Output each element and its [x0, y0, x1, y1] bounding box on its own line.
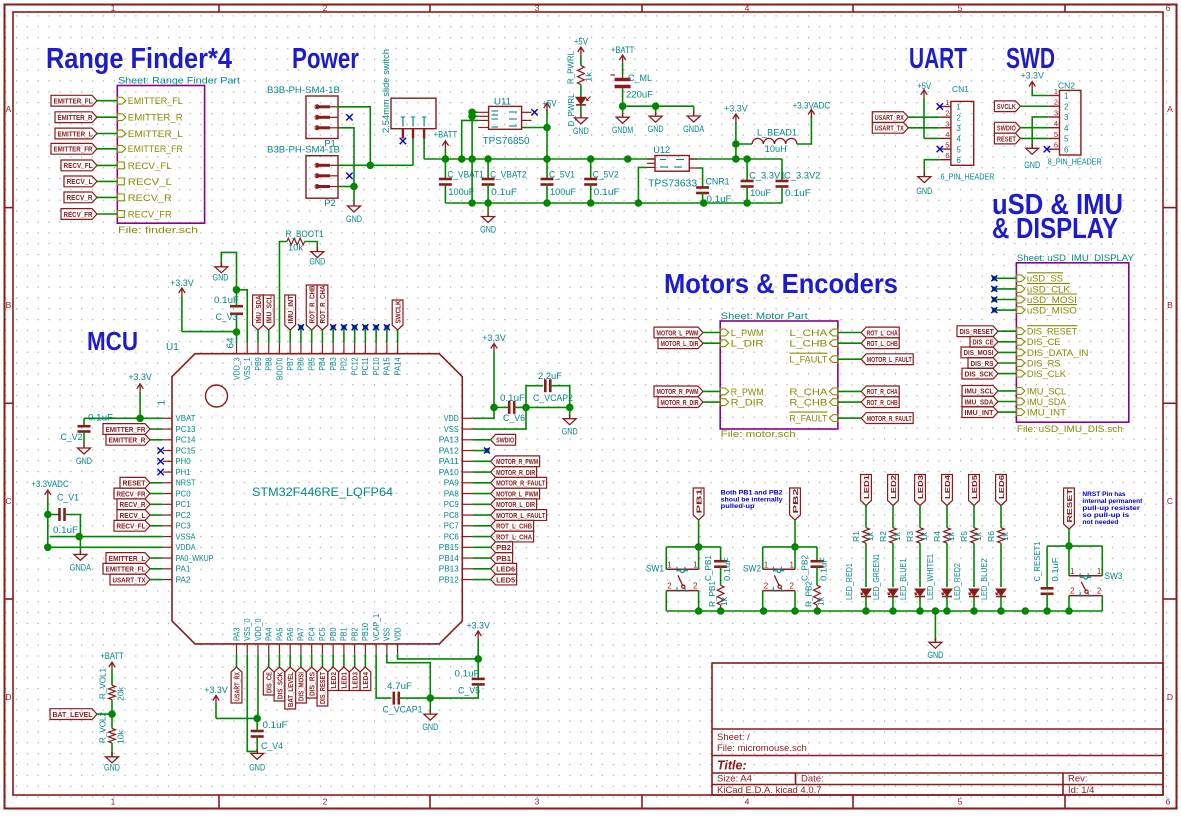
svg-text:1: 1: [111, 3, 116, 13]
svg-text:LED5: LED5: [496, 575, 515, 584]
svg-text:1: 1: [693, 560, 698, 569]
svg-text:VSS_0: VSS_0: [243, 618, 252, 641]
svg-text:Date:: Date:: [801, 774, 824, 785]
svg-text:+3.3VADC: +3.3VADC: [793, 101, 831, 112]
svg-text:0.1uF: 0.1uF: [455, 669, 480, 680]
svg-text:PA2: PA2: [176, 575, 192, 584]
svg-text:6: 6: [1166, 797, 1171, 807]
svg-text:6: 6: [945, 151, 949, 160]
svg-text:DIS_RESET: DIS_RESET: [1027, 327, 1078, 338]
svg-text:RECV_FR: RECV_FR: [64, 210, 93, 219]
svg-text:1k: 1k: [584, 71, 594, 82]
svg-text:R6: R6: [986, 531, 996, 542]
svg-text:4: 4: [745, 797, 750, 807]
svg-text:MOTOR_L_PWM: MOTOR_L_PWM: [657, 328, 699, 337]
svg-text:IMU_SCL: IMU_SCL: [965, 387, 994, 396]
svg-text:VDD: VDD: [444, 414, 459, 423]
svg-text:MOTOR_L_DIR: MOTOR_L_DIR: [661, 339, 699, 348]
svg-text:GND: GND: [309, 257, 325, 268]
svg-text:0.1uF: 0.1uF: [1050, 558, 1060, 582]
svg-text:Title:: Title:: [717, 759, 747, 773]
svg-text:+3.3VADC: +3.3VADC: [31, 479, 69, 490]
svg-text:PB13: PB13: [439, 565, 460, 574]
svg-text:RECV_R: RECV_R: [67, 193, 93, 202]
svg-text:PA15: PA15: [383, 357, 392, 376]
svg-text:1k: 1k: [973, 531, 983, 541]
svg-text:1: 1: [956, 103, 961, 112]
svg-text:+3.3V: +3.3V: [1020, 70, 1044, 81]
svg-text:1: 1: [157, 400, 168, 406]
svg-text:VSS_1: VSS_1: [243, 357, 252, 380]
svg-text:100uF: 100uF: [550, 187, 576, 198]
svg-text:EMITTER_R: EMITTER_R: [109, 436, 146, 445]
svg-text:2: 2: [945, 109, 949, 118]
svg-text:LED2: LED2: [329, 672, 338, 689]
svg-text:PA4: PA4: [265, 627, 274, 641]
svg-text:RECV_FL: RECV_FL: [64, 161, 93, 170]
svg-text:1k: 1k: [865, 531, 875, 541]
svg-text:6: 6: [956, 156, 961, 165]
svg-text:2: 2: [1054, 98, 1058, 107]
svg-text:SW3: SW3: [1105, 571, 1123, 582]
svg-text:5: 5: [958, 797, 963, 807]
svg-text:ROT_R_CHA: ROT_R_CHA: [318, 285, 327, 323]
svg-text:C_V2: C_V2: [61, 432, 83, 443]
svg-text:GND: GND: [916, 186, 932, 197]
svg-text:STM32F446RE_LQFP64: STM32F446RE_LQFP64: [252, 485, 393, 499]
svg-text:PB1: PB1: [340, 627, 349, 641]
svg-text:PB4: PB4: [318, 357, 327, 371]
svg-text:2: 2: [323, 797, 328, 807]
svg-text:DIS_CLK: DIS_CLK: [1027, 369, 1067, 380]
svg-text:TPS76850: TPS76850: [483, 135, 530, 147]
svg-text:10uH: 10uH: [765, 144, 787, 155]
svg-text:2: 2: [1097, 587, 1102, 596]
svg-text:U11: U11: [494, 97, 511, 108]
svg-text:R_FAULT: R_FAULT: [789, 414, 827, 425]
svg-text:1: 1: [945, 98, 949, 107]
svg-text:+3.3V: +3.3V: [724, 103, 748, 114]
svg-text:File: uSD_IMU_DIS.sch: File: uSD_IMU_DIS.sch: [1017, 424, 1123, 435]
svg-text:PA13: PA13: [439, 436, 460, 445]
svg-text:P2: P2: [324, 198, 336, 209]
svg-text:6: 6: [1064, 145, 1069, 154]
svg-text:C_5V2: C_5V2: [593, 170, 619, 181]
svg-text:PD2: PD2: [340, 357, 349, 371]
svg-text:VDD_0: VDD_0: [254, 618, 263, 641]
svg-text:R_PWRL: R_PWRL: [566, 51, 576, 84]
svg-text:PH1: PH1: [176, 468, 192, 477]
svg-text:PA0_WKUP: PA0_WKUP: [176, 554, 214, 563]
svg-text:10k: 10k: [116, 729, 126, 744]
svg-text:DIS_RESET: DIS_RESET: [318, 672, 327, 704]
svg-text:2: 2: [956, 113, 961, 122]
svg-text:GNDM: GNDM: [612, 125, 633, 136]
svg-text:+BATT: +BATT: [100, 651, 124, 662]
svg-text:4.7uF: 4.7uF: [387, 681, 412, 692]
svg-text:C: C: [5, 496, 11, 506]
svg-text:GND: GND: [1024, 160, 1040, 171]
svg-text:0.1uF: 0.1uF: [214, 295, 239, 306]
svg-text:GNDA: GNDA: [70, 562, 92, 573]
svg-text:0.1uF: 0.1uF: [722, 557, 732, 581]
svg-text:C_PB1: C_PB1: [703, 555, 713, 581]
svg-text:DIS_RS: DIS_RS: [1027, 358, 1061, 369]
svg-text:ROT_R_CHB: ROT_R_CHB: [867, 398, 898, 407]
svg-text:GND: GND: [346, 214, 362, 225]
svg-text:DIS_MOSI: DIS_MOSI: [297, 672, 306, 701]
svg-text:2: 2: [790, 582, 795, 591]
svg-text:LED6: LED6: [997, 475, 1006, 499]
svg-text:PC15: PC15: [176, 446, 197, 455]
svg-text:0.1uF: 0.1uF: [263, 720, 288, 731]
svg-text:+3.3V: +3.3V: [128, 372, 152, 383]
svg-text:B: B: [1167, 300, 1173, 310]
svg-text:R1: R1: [851, 531, 861, 542]
svg-text:A: A: [6, 104, 12, 114]
svg-text:MOTOR_L_FAULT: MOTOR_L_FAULT: [867, 355, 912, 364]
svg-text:C_V1: C_V1: [57, 493, 79, 504]
svg-text:1: 1: [111, 797, 116, 807]
svg-text:VSS: VSS: [444, 425, 459, 434]
svg-text:220uF: 220uF: [626, 89, 653, 100]
svg-text:MOTOR_R_PWM: MOTOR_R_PWM: [496, 457, 538, 466]
svg-text:LED5: LED5: [970, 475, 979, 499]
svg-text:MOTOR_R_PWM: MOTOR_R_PWM: [657, 387, 699, 396]
svg-text:Sheet: uSD_IMU_DISPLAY: Sheet: uSD_IMU_DISPLAY: [1017, 253, 1135, 264]
svg-text:1k: 1k: [946, 531, 956, 541]
svg-text:SWCLK: SWCLK: [393, 300, 402, 323]
svg-text:Sheet: /: Sheet: /: [717, 732, 750, 743]
svg-text:IMU_INT: IMU_INT: [965, 408, 994, 417]
svg-text:GND: GND: [249, 763, 265, 774]
svg-text:6_PIN_HEADER: 6_PIN_HEADER: [941, 172, 995, 182]
svg-text:D_PWRL: D_PWRL: [566, 93, 576, 126]
svg-text:Range Finder*4: Range Finder*4: [46, 43, 232, 75]
svg-text:PB0: PB0: [329, 627, 338, 641]
svg-text:2: 2: [323, 3, 328, 13]
svg-text:SVCLK: SVCLK: [997, 102, 1016, 111]
svg-text:DIS_RESET: DIS_RESET: [960, 327, 994, 336]
svg-text:GND: GND: [562, 427, 578, 438]
svg-text:+3.3V: +3.3V: [482, 333, 506, 344]
svg-text:GND: GND: [927, 650, 943, 661]
svg-text:+BATT: +BATT: [611, 45, 635, 56]
svg-text:Id: 1/4: Id: 1/4: [1068, 785, 1094, 796]
svg-text:IMU_SDA: IMU_SDA: [1027, 397, 1067, 408]
svg-text:8_PIN_HEADER: 8_PIN_HEADER: [1048, 156, 1102, 166]
svg-text:RECV_L: RECV_L: [67, 177, 93, 186]
svg-text:NRST Pin has: NRST Pin has: [1082, 491, 1126, 498]
svg-text:PB1: PB1: [496, 554, 511, 563]
svg-text:10k: 10k: [288, 243, 303, 254]
svg-text:IMU_SDA: IMU_SDA: [965, 397, 994, 406]
svg-text:ROT_L_CHB: ROT_L_CHB: [496, 522, 532, 531]
svg-text:PA9: PA9: [444, 479, 460, 488]
svg-text:B: B: [6, 300, 12, 310]
svg-text:A: A: [1167, 104, 1173, 114]
svg-text:PC10: PC10: [372, 357, 381, 375]
svg-text:1k: 1k: [719, 596, 729, 606]
svg-text:EMITTER_FR: EMITTER_FR: [106, 425, 146, 434]
svg-text:C_VBAT2: C_VBAT2: [490, 170, 526, 181]
svg-text:File: motor.sch: File: motor.sch: [721, 429, 796, 440]
svg-text:1: 1: [764, 560, 769, 569]
svg-text:EMITTER_R: EMITTER_R: [58, 113, 93, 122]
svg-text:DIS_SCK: DIS_SCK: [965, 369, 995, 378]
svg-text:+5V: +5V: [542, 98, 557, 109]
svg-text:R5: R5: [959, 531, 969, 542]
svg-text:MOTOR_L_PWM: MOTOR_L_PWM: [496, 489, 538, 498]
svg-text:5: 5: [956, 145, 961, 154]
svg-text:4: 4: [1054, 119, 1058, 128]
svg-text:LED6: LED6: [496, 565, 515, 574]
svg-text:RECV_FL: RECV_FL: [128, 161, 172, 172]
svg-text:R_VOL2: R_VOL2: [98, 712, 108, 743]
svg-text:4: 4: [956, 135, 961, 144]
svg-text:GND: GND: [213, 273, 229, 284]
svg-text:6: 6: [1054, 141, 1058, 150]
svg-text:PC2: PC2: [176, 511, 192, 520]
svg-text:3: 3: [535, 3, 540, 13]
svg-text:1: 1: [1054, 87, 1058, 96]
svg-text:PB6: PB6: [297, 357, 306, 371]
svg-text:PC0: PC0: [176, 489, 192, 498]
svg-text:L_CHA: L_CHA: [789, 328, 828, 339]
svg-text:DIS_RS: DIS_RS: [307, 672, 316, 696]
svg-text:so pull-up is: so pull-up is: [1082, 512, 1129, 519]
svg-text:MOTOR_L_DIR: MOTOR_L_DIR: [496, 500, 535, 509]
svg-text:+3.3V: +3.3V: [466, 621, 490, 632]
svg-text:MCU: MCU: [87, 326, 138, 356]
svg-text:R2: R2: [878, 531, 888, 542]
svg-text:SWDIO: SWDIO: [496, 436, 514, 445]
svg-text:File: finder.sch: File: finder.sch: [118, 225, 198, 236]
svg-text:Motors & Encoders: Motors & Encoders: [664, 268, 898, 299]
svg-text:0.1uF: 0.1uF: [88, 413, 113, 424]
svg-text:C_V3: C_V3: [216, 312, 238, 323]
svg-text:GND: GND: [573, 126, 589, 137]
svg-text:R_CHB: R_CHB: [789, 398, 827, 409]
svg-text:2: 2: [1064, 102, 1069, 111]
svg-text:IMU_SCL: IMU_SCL: [1027, 386, 1066, 397]
svg-text:PA6: PA6: [286, 627, 295, 641]
svg-text:LED3: LED3: [916, 475, 925, 499]
svg-text:CN1: CN1: [952, 84, 969, 94]
svg-text:C_5V1: C_5V1: [549, 170, 575, 181]
svg-text:VBAT: VBAT: [176, 414, 196, 423]
svg-text:Sheet: Range Finder Part: Sheet: Range Finder Part: [118, 76, 240, 87]
svg-text:not needed: not needed: [1082, 519, 1118, 526]
svg-text:3: 3: [1064, 113, 1069, 122]
svg-text:IMU_INT: IMU_INT: [286, 295, 295, 323]
svg-text:PB15: PB15: [439, 543, 460, 552]
svg-text:PB12: PB12: [439, 575, 460, 584]
svg-text:RESET: RESET: [123, 479, 146, 488]
svg-text:1k: 1k: [919, 531, 929, 541]
svg-text:USART_TX: USART_TX: [113, 575, 146, 584]
svg-text:C_V4: C_V4: [261, 741, 283, 752]
svg-text:EMITTER_L: EMITTER_L: [109, 554, 146, 563]
svg-text:0.1uF: 0.1uF: [491, 187, 517, 198]
svg-text:PC9: PC9: [444, 500, 460, 509]
svg-text:VDD_3: VDD_3: [232, 357, 241, 380]
svg-text:LED_GREEN1: LED_GREEN1: [871, 554, 881, 600]
svg-text:PC14: PC14: [176, 436, 197, 445]
svg-text:PC11: PC11: [361, 357, 370, 376]
svg-text:RECV_L: RECV_L: [120, 511, 146, 520]
svg-text:GND: GND: [480, 225, 496, 236]
svg-text:pulled-up: pulled-up: [721, 503, 755, 510]
svg-text:1: 1: [790, 560, 795, 569]
svg-text:SW2: SW2: [743, 563, 761, 574]
svg-text:+3.3V: +3.3V: [170, 278, 194, 289]
svg-text:DIS_CE: DIS_CE: [1027, 337, 1061, 348]
svg-text:LED_BLUE1: LED_BLUE1: [898, 558, 908, 600]
svg-text:UART: UART: [909, 43, 967, 75]
svg-text:+5V: +5V: [574, 37, 589, 48]
svg-text:TPS73633: TPS73633: [648, 178, 697, 190]
svg-text:Power: Power: [292, 43, 359, 75]
svg-text:D: D: [1167, 692, 1173, 702]
svg-text:DIS_SCK: DIS_SCK: [275, 672, 284, 699]
svg-text:L_PWM: L_PWM: [731, 328, 764, 339]
svg-text:20k: 20k: [116, 686, 126, 701]
svg-text:RECV_FR: RECV_FR: [128, 209, 172, 220]
svg-text:EMITTER_FR: EMITTER_FR: [128, 144, 183, 155]
svg-text:KiCad E.D.A. kicad 4.0.7: KiCad E.D.A. kicad 4.0.7: [717, 785, 822, 796]
svg-text:RECV_R: RECV_R: [128, 193, 172, 204]
svg-text:1: 1: [1064, 92, 1069, 101]
svg-text:EMITTER_FL: EMITTER_FL: [54, 97, 93, 106]
svg-text:GND: GND: [648, 124, 664, 135]
svg-text:C_VCAP2: C_VCAP2: [533, 393, 573, 404]
svg-text:PA12: PA12: [439, 446, 460, 455]
svg-text:PB9: PB9: [254, 357, 263, 371]
svg-text:PA5: PA5: [275, 627, 284, 641]
svg-text:MOTOR_R_FAULT: MOTOR_R_FAULT: [496, 479, 545, 488]
svg-text:R_BOOT1: R_BOOT1: [286, 229, 324, 240]
svg-text:C_VCAP1: C_VCAP1: [383, 705, 423, 716]
svg-text:& DISPLAY: & DISPLAY: [992, 213, 1118, 245]
svg-text:PB2: PB2: [350, 627, 359, 641]
svg-text:0.1uF: 0.1uF: [53, 525, 78, 536]
svg-text:MOTOR_R_FAULT: MOTOR_R_FAULT: [867, 414, 912, 423]
svg-text:SWDIO: SWDIO: [997, 124, 1016, 133]
svg-text:RECV_R: RECV_R: [120, 500, 146, 509]
svg-text:0.1uF: 0.1uF: [594, 187, 620, 198]
svg-text:EMITTER_L: EMITTER_L: [58, 129, 93, 138]
svg-text:2: 2: [764, 582, 769, 591]
svg-text:5: 5: [1054, 130, 1058, 139]
svg-text:BOOT0: BOOT0: [275, 357, 284, 380]
svg-text:ROT_L_CHA: ROT_L_CHA: [867, 328, 898, 337]
svg-text:GND: GND: [104, 763, 120, 774]
svg-text:5: 5: [945, 141, 949, 150]
svg-text:BAT_LEVEL: BAT_LEVEL: [53, 710, 93, 719]
svg-text:PA3: PA3: [232, 627, 241, 641]
svg-text:LED_WHITE1: LED_WHITE1: [925, 554, 935, 600]
svg-text:0.1uF: 0.1uF: [785, 188, 811, 199]
svg-text:0.1uF: 0.1uF: [819, 557, 829, 581]
svg-text:PB3: PB3: [329, 357, 338, 371]
svg-text:LED_RED2: LED_RED2: [952, 563, 962, 600]
svg-text:PB8: PB8: [265, 357, 274, 371]
svg-text:L_CHB: L_CHB: [789, 339, 827, 350]
svg-text:PB2: PB2: [496, 543, 511, 552]
svg-text:PC5: PC5: [318, 627, 327, 641]
svg-text:DIS_DATA_IN: DIS_DATA_IN: [1027, 348, 1089, 359]
svg-text:LED4: LED4: [943, 474, 952, 499]
svg-text:1: 1: [667, 560, 672, 569]
svg-text:6: 6: [1166, 3, 1171, 13]
svg-text:C_VBAT1: C_VBAT1: [447, 170, 483, 181]
svg-text:U12: U12: [653, 145, 670, 156]
svg-text:PB5: PB5: [307, 357, 316, 371]
svg-text:PC1: PC1: [176, 500, 192, 509]
svg-text:EMITTER_FR: EMITTER_FR: [54, 145, 93, 154]
svg-text:ROT_L_CHA: ROT_L_CHA: [496, 532, 532, 541]
svg-text:MOTOR_R_DIR: MOTOR_R_DIR: [496, 468, 535, 477]
svg-text:1k: 1k: [1000, 531, 1010, 541]
svg-text:CN2: CN2: [1058, 81, 1075, 91]
svg-text:Rev:: Rev:: [1068, 774, 1088, 785]
svg-text:GND: GND: [76, 456, 92, 467]
svg-text:NRST: NRST: [176, 479, 196, 488]
svg-text:EMITTER_FL: EMITTER_FL: [128, 96, 183, 107]
svg-text:PA10: PA10: [439, 468, 460, 477]
svg-text:U1: U1: [166, 342, 179, 353]
svg-text:PB10: PB10: [361, 623, 370, 641]
svg-text:PC8: PC8: [444, 511, 460, 520]
svg-text:3: 3: [956, 124, 961, 133]
svg-text:1k: 1k: [892, 531, 902, 541]
svg-text:LED1: LED1: [862, 475, 871, 499]
svg-text:PC4: PC4: [307, 627, 316, 641]
svg-text:GNDA: GNDA: [683, 124, 705, 135]
svg-text:SW1: SW1: [646, 563, 664, 574]
svg-text:LED1: LED1: [340, 672, 349, 689]
svg-text:L_DIR: L_DIR: [731, 339, 764, 350]
svg-text:Size: A4: Size: A4: [717, 774, 752, 785]
svg-text:PB7: PB7: [286, 357, 295, 371]
svg-text:PA7: PA7: [297, 627, 306, 641]
svg-text:File: micromouse.sch: File: micromouse.sch: [717, 743, 807, 754]
svg-text:+3.3V: +3.3V: [204, 685, 228, 696]
svg-text:+5V: +5V: [917, 81, 932, 92]
svg-text:D: D: [5, 692, 11, 702]
svg-text:R3: R3: [905, 531, 915, 542]
svg-text:C_V6: C_V6: [503, 413, 525, 424]
svg-text:3: 3: [535, 797, 540, 807]
svg-text:pull-up resister: pull-up resister: [1082, 505, 1140, 512]
svg-text:PC12: PC12: [350, 357, 359, 375]
svg-text:Sheet: Motor Part: Sheet: Motor Part: [721, 311, 808, 322]
svg-text:IMU_SCL: IMU_SCL: [265, 295, 274, 323]
svg-text:4: 4: [745, 3, 750, 13]
svg-text:+BATT: +BATT: [434, 130, 458, 141]
svg-text:VDDA: VDDA: [176, 543, 197, 552]
svg-text:2: 2: [1070, 587, 1075, 596]
svg-text:PA11: PA11: [439, 457, 460, 466]
svg-text:RECV_FL: RECV_FL: [117, 522, 146, 531]
svg-text:PA1: PA1: [176, 565, 192, 574]
svg-text:USART_RX: USART_RX: [875, 113, 904, 122]
svg-text:LED2: LED2: [889, 475, 898, 499]
svg-text:5: 5: [958, 3, 963, 13]
svg-text:MOTOR_L_FAULT: MOTOR_L_FAULT: [496, 511, 545, 520]
svg-text:DIS_CE: DIS_CE: [265, 672, 274, 693]
